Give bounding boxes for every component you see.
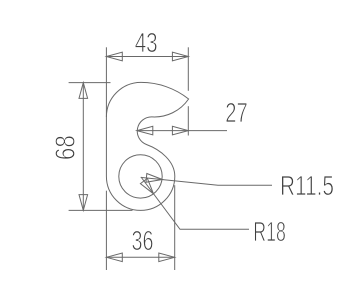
inner circle R11.5 [119,155,162,198]
leader R11.5 [141,177,272,185]
dimension 36: arrow left [106,253,122,262]
leader R18 [141,177,249,229]
profile outline [106,82,188,210]
dimension 36: extension lines [105,191,107,270]
dimension 68: extension lines [69,82,111,84]
dimension 43: extension lines [105,47,107,117]
dimension 68: arrow bottom [79,195,88,211]
dimension 36: dimension line [106,256,174,258]
dimension 43: arrow right [172,52,188,61]
dimension 68: arrow top [79,83,88,99]
dimension 68: dimension line [82,83,84,211]
dimension 27: arrow left [137,126,153,135]
svg-text:R18: R18 [253,216,285,247]
dimension 43: dimension line [106,56,188,58]
dimension 27: arrow right [172,126,188,135]
dimension 36: arrow right [159,253,175,262]
svg-text:R11.5: R11.5 [280,170,334,201]
svg-text:36: 36 [132,225,154,256]
leader R18 arrowhead [140,178,153,193]
svg-text:27: 27 [225,97,248,128]
leader R11.5 arrowhead [146,174,162,183]
svg-text:43: 43 [135,27,158,58]
svg-text:68: 68 [50,135,81,160]
dimension 27: dimension line [137,130,227,132]
dimension 43: arrow left [106,52,122,61]
